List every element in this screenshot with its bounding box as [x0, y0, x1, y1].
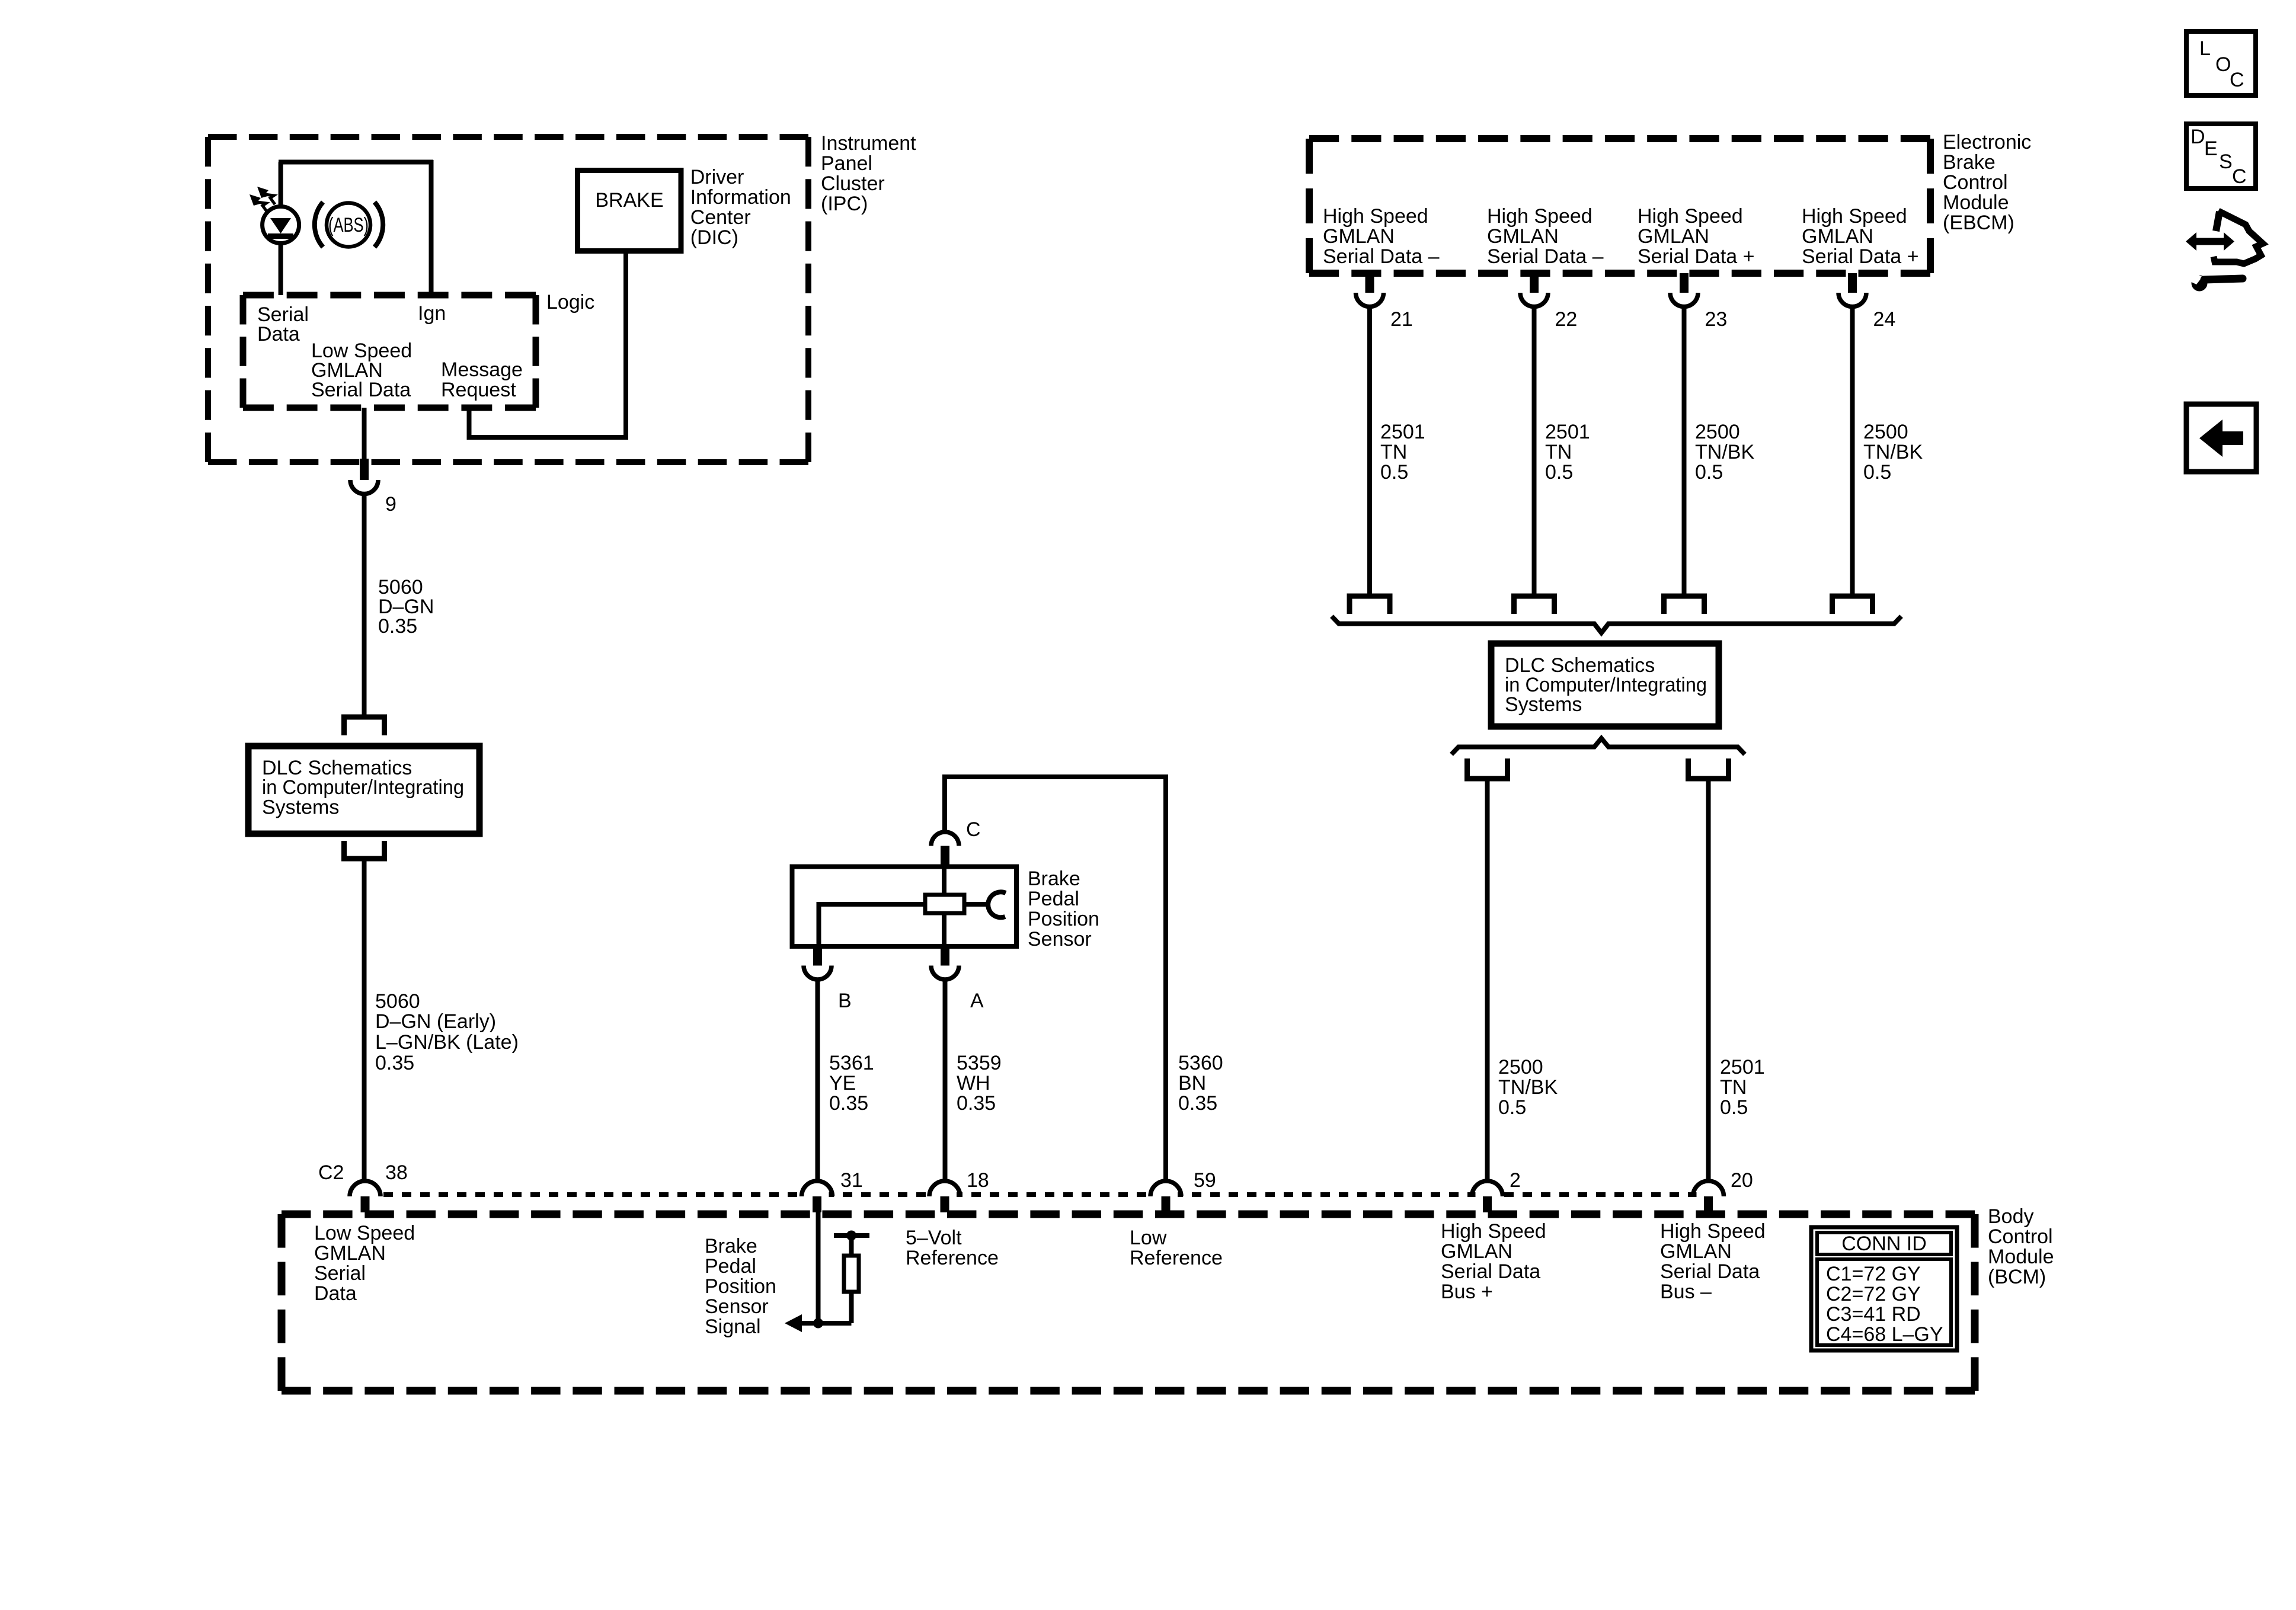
- connector pin 38 (BCM): [361, 1196, 370, 1212]
- svg-text:21: 21: [1390, 308, 1413, 331]
- svg-text:Control: Control: [1988, 1225, 2053, 1248]
- wire signal branch horizontal: [800, 1321, 852, 1326]
- pin number 2: [1510, 1169, 1521, 1192]
- svg-text:18: 18: [967, 1169, 989, 1192]
- icon wrench: [2186, 271, 2243, 292]
- svg-text:Logic: Logic: [546, 291, 594, 313]
- svg-text:GMLAN: GMLAN: [1323, 225, 1395, 248]
- label Low Speed GMLAN Serial Data: [311, 340, 412, 401]
- svg-text:0.35: 0.35: [378, 615, 417, 638]
- svg-text:GMLAN: GMLAN: [1441, 1240, 1512, 1263]
- wire label 5060 D-GN 0.35: [378, 576, 434, 638]
- connector pin 2 (BCM): [1483, 1196, 1492, 1212]
- BCM connector row dotted line: [365, 1192, 1709, 1197]
- wire label 5359 WH 0.35: [957, 1052, 1002, 1115]
- label 5-Volt Reference: [906, 1227, 999, 1269]
- svg-text:D–GN (Early): D–GN (Early): [375, 1010, 496, 1033]
- svg-text:Pedal: Pedal: [1028, 888, 1079, 910]
- svg-text:0.5: 0.5: [1863, 461, 1891, 484]
- svg-text:5060: 5060: [375, 990, 420, 1013]
- svg-text:BRAKE: BRAKE: [595, 189, 663, 212]
- wire sensor signal inside BCM: [816, 1212, 821, 1323]
- label DLC Schematics in Computer/Integrating Systems (right): [1505, 654, 1707, 716]
- svg-text:L: L: [2199, 37, 2211, 60]
- wire 5060 lower segment: [362, 859, 367, 1183]
- svg-text:20: 20: [1731, 1169, 1753, 1192]
- svg-text:TN/BK: TN/BK: [1863, 441, 1923, 463]
- svg-text:22: 22: [1555, 308, 1578, 331]
- wire label 2501 TN 0.5: [1545, 421, 1590, 484]
- wire circuit 2501 from pin 22: [1532, 306, 1537, 596]
- icon component with double arrow (location/view icon): [2186, 211, 2263, 264]
- svg-text:Ign: Ign: [418, 302, 446, 325]
- logic block box: [243, 295, 536, 408]
- svg-text:C3=41 RD: C3=41 RD: [1826, 1303, 1921, 1326]
- svg-text:0.5: 0.5: [1695, 461, 1723, 484]
- wire resistor bottom lead: [849, 1294, 854, 1323]
- wire label 2500 TN/BK 0.5: [1863, 421, 1923, 484]
- svg-text:TN/BK: TN/BK: [1695, 441, 1754, 463]
- svg-text:High Speed: High Speed: [1638, 205, 1743, 228]
- svg-text:(BCM): (BCM): [1988, 1266, 2046, 1288]
- junction dot at rail: [846, 1231, 856, 1241]
- svg-text:(EBCM): (EBCM): [1943, 212, 2014, 234]
- label Electronic Brake Control Module (EBCM): [1943, 131, 2031, 234]
- svg-text:(IPC): (IPC): [821, 193, 868, 215]
- label High Speed GMLAN Serial Data + (pin 23): [1638, 205, 1755, 268]
- connector pin 9 (IPC): [360, 459, 369, 480]
- connector socket 59 (BCM): [1150, 1181, 1181, 1197]
- svg-text:0.35: 0.35: [1178, 1092, 1217, 1115]
- svg-text:TN: TN: [1720, 1076, 1747, 1099]
- brace grouping BCM high speed wires: [1451, 738, 1745, 754]
- connector socket 2 (BCM): [1472, 1181, 1503, 1197]
- label BRAKE: [595, 189, 663, 212]
- svg-text:(DIC): (DIC): [690, 226, 738, 249]
- label Body Control Module (BCM): [1988, 1205, 2054, 1288]
- wire label 2500 TN/BK 0.5 (lower): [1498, 1056, 1558, 1119]
- svg-text:D: D: [2191, 126, 2205, 148]
- label Brake Pedal Position Sensor Signal: [705, 1235, 776, 1338]
- label Driver Information Center (DIC): [690, 166, 791, 249]
- resistor pull-up inside BCM: [844, 1256, 859, 1292]
- wiper contact arc: [988, 892, 1006, 917]
- svg-text:CONN ID: CONN ID: [1841, 1233, 1927, 1255]
- wire into connector C: [942, 774, 947, 833]
- svg-text:Serial Data: Serial Data: [1441, 1260, 1540, 1283]
- svg-text:Serial Data: Serial Data: [1660, 1260, 1760, 1283]
- svg-text:5–Volt: 5–Volt: [906, 1227, 962, 1249]
- component box Brake Pedal Position Sensor: [792, 867, 1017, 947]
- wire B riser inside sensor: [817, 902, 821, 949]
- connector socket 22: [1520, 293, 1548, 307]
- svg-text:0.5: 0.5: [1720, 1096, 1748, 1119]
- wire sensor C to low reference (horizontal): [945, 774, 1168, 779]
- connector socket 31 (BCM): [802, 1181, 833, 1197]
- wire LED anode up: [279, 162, 283, 206]
- connector socket 23: [1670, 293, 1698, 307]
- svg-text:Brake: Brake: [1943, 151, 1996, 174]
- svg-text:2: 2: [1510, 1169, 1521, 1192]
- pin number 59: [1194, 1169, 1216, 1192]
- connector socket 38 (BCM C2): [350, 1181, 380, 1197]
- connector pin B (sensor): [813, 946, 822, 966]
- svg-text:Serial Data +: Serial Data +: [1802, 245, 1919, 268]
- connector pin 18 (BCM): [941, 1196, 949, 1212]
- wire label 2501 TN 0.5: [1380, 421, 1425, 484]
- svg-text:High Speed: High Speed: [1660, 1220, 1766, 1243]
- indicator LED (ABS lamp): [263, 207, 299, 244]
- wire circuit 5361 from B: [816, 979, 820, 1183]
- wire Ign vertical: [429, 160, 434, 295]
- label Instrument Panel Cluster (IPC): [821, 132, 916, 215]
- svg-text:Information: Information: [690, 186, 791, 209]
- svg-text:5360: 5360: [1178, 1052, 1223, 1074]
- svg-text:in Computer/Integrating: in Computer/Integrating: [262, 776, 464, 799]
- svg-text:Serial Data –: Serial Data –: [1487, 245, 1604, 268]
- svg-text:TN/BK: TN/BK: [1498, 1076, 1558, 1099]
- label High Speed GMLAN Serial Data + (pin 24): [1802, 205, 1919, 268]
- reference box DLC Schematics (right): [1491, 644, 1719, 726]
- svg-text:Reference: Reference: [1130, 1247, 1223, 1269]
- svg-text:B: B: [838, 990, 852, 1012]
- box BRAKE (DIC display): [578, 171, 682, 251]
- svg-text:L–GN/BK (Late): L–GN/BK (Late): [375, 1031, 519, 1054]
- module box EBCM (Electronic Brake Control Module): [1309, 139, 1930, 273]
- svg-text:Serial: Serial: [314, 1262, 366, 1285]
- wire Logic serial data out: [362, 408, 367, 461]
- svg-text:0.5: 0.5: [1545, 461, 1573, 484]
- table rows connector ids: [1826, 1263, 1943, 1346]
- svg-text:Systems: Systems: [262, 796, 339, 819]
- wire LED cathode down to Logic: [279, 244, 283, 295]
- svg-text:Body: Body: [1988, 1205, 2034, 1228]
- connector socket A: [931, 966, 959, 980]
- svg-text:Bus –: Bus –: [1660, 1281, 1712, 1303]
- label High Speed GMLAN Serial Data – (pin 22): [1487, 205, 1604, 268]
- svg-text:Brake: Brake: [705, 1235, 757, 1257]
- table CONN ID: [1811, 1227, 1957, 1350]
- svg-text:Driver: Driver: [690, 166, 744, 188]
- reference box DLC Schematics (left): [248, 746, 479, 834]
- svg-text:2501: 2501: [1380, 421, 1425, 443]
- svg-text:2501: 2501: [1545, 421, 1590, 443]
- svg-text:GMLAN: GMLAN: [314, 1242, 386, 1265]
- svg-text:0.35: 0.35: [957, 1092, 996, 1115]
- svg-text:Serial Data: Serial Data: [311, 379, 411, 401]
- svg-text:Request: Request: [441, 379, 516, 401]
- wire loop top horizontal: [279, 160, 433, 165]
- wire circuit 2500 to BCM pin 2: [1485, 777, 1490, 1183]
- connector socket B: [804, 966, 832, 980]
- svg-text:24: 24: [1873, 308, 1896, 331]
- off-page bracket below DLC box (left): [344, 841, 385, 859]
- wire internal reference rail: [834, 1233, 869, 1238]
- svg-text:Data: Data: [257, 323, 300, 345]
- svg-text:Module: Module: [1943, 191, 2009, 214]
- wire BRAKE down: [623, 251, 628, 440]
- svg-text:TN: TN: [1380, 441, 1407, 463]
- svg-text:GMLAN: GMLAN: [1660, 1240, 1732, 1263]
- LED emission arrow 1: [250, 194, 267, 212]
- svg-text:C1=72 GY: C1=72 GY: [1826, 1263, 1921, 1285]
- wire low reference vertical: [1163, 777, 1168, 1183]
- svg-text:TN: TN: [1545, 441, 1572, 463]
- junction dot at signal branch: [813, 1318, 823, 1329]
- svg-text:0.5: 0.5: [1498, 1096, 1526, 1119]
- svg-text:Signal: Signal: [705, 1315, 761, 1338]
- svg-text:GMLAN: GMLAN: [1487, 225, 1559, 248]
- off-page bracket below wire 24: [1833, 596, 1873, 614]
- label High Speed GMLAN Serial Data Bus +: [1441, 1220, 1546, 1303]
- svg-text:Brake: Brake: [1028, 868, 1080, 890]
- svg-text:C2=72 GY: C2=72 GY: [1826, 1283, 1921, 1305]
- svg-text:0.35: 0.35: [375, 1052, 414, 1074]
- off-page bracket below wire 22: [1514, 596, 1555, 614]
- svg-text:59: 59: [1194, 1169, 1216, 1192]
- svg-text:Position: Position: [1028, 908, 1099, 930]
- wire label 5360 BN 0.35: [1178, 1052, 1223, 1115]
- label Low Speed GMLAN Serial Data (BCM): [314, 1222, 415, 1305]
- icon box back arrow: [2186, 404, 2256, 472]
- svg-text:Panel: Panel: [821, 152, 872, 175]
- label Serial Data: [257, 303, 309, 345]
- svg-text:C4=68 L–GY: C4=68 L–GY: [1826, 1323, 1943, 1346]
- wire resistor top lead: [849, 1235, 854, 1254]
- wire BRAKE horizontal: [467, 435, 629, 440]
- svg-text:BN: BN: [1178, 1072, 1206, 1094]
- connector socket 24: [1838, 293, 1866, 307]
- off-page bracket above wire to pin 20: [1689, 758, 1729, 779]
- svg-text:2501: 2501: [1720, 1056, 1765, 1078]
- connector pin 22 (EBCM): [1530, 273, 1539, 293]
- off-page bracket above DLC box (left): [344, 717, 385, 735]
- svg-text:38: 38: [385, 1161, 408, 1184]
- connector socket 20 (BCM): [1693, 1181, 1724, 1197]
- svg-text:Serial Data –: Serial Data –: [1323, 245, 1440, 268]
- connector label C2: [318, 1161, 344, 1184]
- svg-text:0.35: 0.35: [829, 1092, 868, 1115]
- svg-text:2500: 2500: [1695, 421, 1740, 443]
- svg-text:5361: 5361: [829, 1052, 874, 1074]
- wire circuit 2501 from pin 21: [1367, 306, 1372, 596]
- connector pin C (sensor): [941, 846, 949, 869]
- svg-text:Pedal: Pedal: [705, 1255, 756, 1278]
- table header CONN ID: [1841, 1233, 1927, 1255]
- svg-text:High Speed: High Speed: [1441, 1220, 1546, 1243]
- wire circuit 2500 from pin 24: [1850, 306, 1855, 596]
- svg-text:High Speed: High Speed: [1323, 205, 1428, 228]
- label Brake Pedal Position Sensor: [1028, 868, 1099, 950]
- label Low Reference: [1130, 1227, 1223, 1269]
- connector pin 23 (EBCM): [1680, 273, 1689, 293]
- brace grouping EBCM wires: [1332, 616, 1901, 633]
- connector socket 18 (BCM): [929, 1181, 960, 1197]
- ABS indicator symbol: [315, 202, 383, 247]
- svg-text:Bus +: Bus +: [1441, 1281, 1493, 1303]
- module box IPC (Instrument Panel Cluster): [208, 137, 808, 462]
- wire label 5060 D-GN (Early) L-GN/BK (Late) 0.35: [375, 990, 519, 1074]
- wire circuit 5359 from A: [943, 979, 948, 1183]
- label Message Request: [441, 359, 523, 401]
- wire 5060 upper segment: [362, 493, 367, 717]
- svg-text:31: 31: [840, 1169, 863, 1192]
- connector socket C: [931, 832, 959, 846]
- svg-text:Cluster: Cluster: [821, 172, 885, 195]
- svg-text:E: E: [2204, 137, 2218, 160]
- svg-text:Data: Data: [314, 1282, 357, 1305]
- wire label 2500 TN/BK 0.5: [1695, 421, 1754, 484]
- svg-text:C: C: [966, 818, 981, 841]
- connector socket 9: [350, 480, 378, 494]
- svg-text:C2: C2: [318, 1161, 344, 1184]
- svg-text:C: C: [2230, 69, 2244, 91]
- svg-text:23: 23: [1705, 308, 1728, 331]
- svg-text:Serial Data +: Serial Data +: [1638, 245, 1755, 268]
- connector socket 21: [1356, 293, 1384, 307]
- connector pin 20 (BCM): [1704, 1196, 1713, 1212]
- resistor potentiometer element: [925, 895, 964, 913]
- pin number 18: [967, 1169, 989, 1192]
- svg-text:(ABS): (ABS): [328, 214, 369, 236]
- svg-text:C: C: [2232, 165, 2247, 188]
- label DLC Schematics in Computer/Integrating Systems (left): [262, 757, 464, 819]
- wire circuit 2500 from pin 23: [1682, 306, 1687, 596]
- connector pin A (sensor): [941, 946, 949, 966]
- svg-text:Reference: Reference: [906, 1247, 999, 1269]
- svg-text:GMLAN: GMLAN: [1802, 225, 1873, 248]
- svg-text:0.5: 0.5: [1380, 461, 1408, 484]
- connector pin 31 (BCM): [813, 1196, 821, 1212]
- svg-text:GMLAN: GMLAN: [1638, 225, 1709, 248]
- svg-text:Low: Low: [1130, 1227, 1167, 1249]
- svg-text:2500: 2500: [1863, 421, 1908, 443]
- off-page bracket below wire 23: [1664, 596, 1705, 614]
- svg-text:High Speed: High Speed: [1487, 205, 1593, 228]
- module box BCM (Body Control Module): [282, 1214, 1975, 1391]
- svg-text:Module: Module: [1988, 1246, 2054, 1268]
- wire Message Request stub: [467, 408, 472, 440]
- icon box DESC: [2186, 124, 2256, 188]
- svg-text:Sensor: Sensor: [705, 1295, 769, 1318]
- label Ign: [418, 302, 446, 325]
- wire label 5361 YE 0.35: [829, 1052, 874, 1115]
- svg-text:Sensor: Sensor: [1028, 928, 1092, 950]
- pin number 20: [1731, 1169, 1753, 1192]
- connector pin 59 (BCM): [1162, 1196, 1171, 1212]
- svg-text:Position: Position: [705, 1275, 776, 1298]
- svg-text:Instrument: Instrument: [821, 132, 916, 155]
- svg-text:9: 9: [385, 493, 396, 516]
- svg-text:Low Speed: Low Speed: [314, 1222, 415, 1244]
- label Logic: [546, 291, 594, 313]
- svg-text:High Speed: High Speed: [1802, 205, 1907, 228]
- svg-text:WH: WH: [957, 1072, 990, 1094]
- svg-text:5359: 5359: [957, 1052, 1002, 1074]
- pin number 38: [385, 1161, 408, 1184]
- label High Speed GMLAN Serial Data – (pin 21): [1323, 205, 1440, 268]
- connector pin 21 (EBCM): [1366, 273, 1374, 293]
- svg-text:S: S: [2219, 151, 2233, 173]
- svg-text:2500: 2500: [1498, 1056, 1543, 1078]
- svg-text:O: O: [2215, 53, 2231, 76]
- wire wiper horizontal (B branch): [819, 902, 989, 907]
- svg-text:YE: YE: [829, 1072, 856, 1094]
- LED emission arrow 2: [257, 187, 275, 204]
- svg-text:Control: Control: [1943, 171, 2008, 194]
- arrowhead signal direction: [785, 1314, 802, 1332]
- svg-text:Center: Center: [690, 206, 751, 229]
- svg-text:Systems: Systems: [1505, 693, 1582, 716]
- icon box LOC: [2186, 31, 2256, 95]
- off-page bracket below wire 21: [1350, 596, 1390, 614]
- pin number 31: [840, 1169, 863, 1192]
- svg-text:A: A: [970, 990, 984, 1012]
- connector pin 24 (EBCM): [1848, 273, 1857, 293]
- svg-text:Message: Message: [441, 359, 523, 381]
- wire label 2501 TN 0.5 (lower): [1720, 1056, 1765, 1119]
- wire potentiometer vertical (C to A): [942, 867, 946, 947]
- wire circuit 2501 to BCM pin 20: [1706, 777, 1711, 1183]
- label High Speed GMLAN Serial Data Bus -: [1660, 1220, 1766, 1303]
- off-page bracket above wire to pin 2: [1467, 758, 1508, 779]
- svg-text:Electronic: Electronic: [1943, 131, 2031, 153]
